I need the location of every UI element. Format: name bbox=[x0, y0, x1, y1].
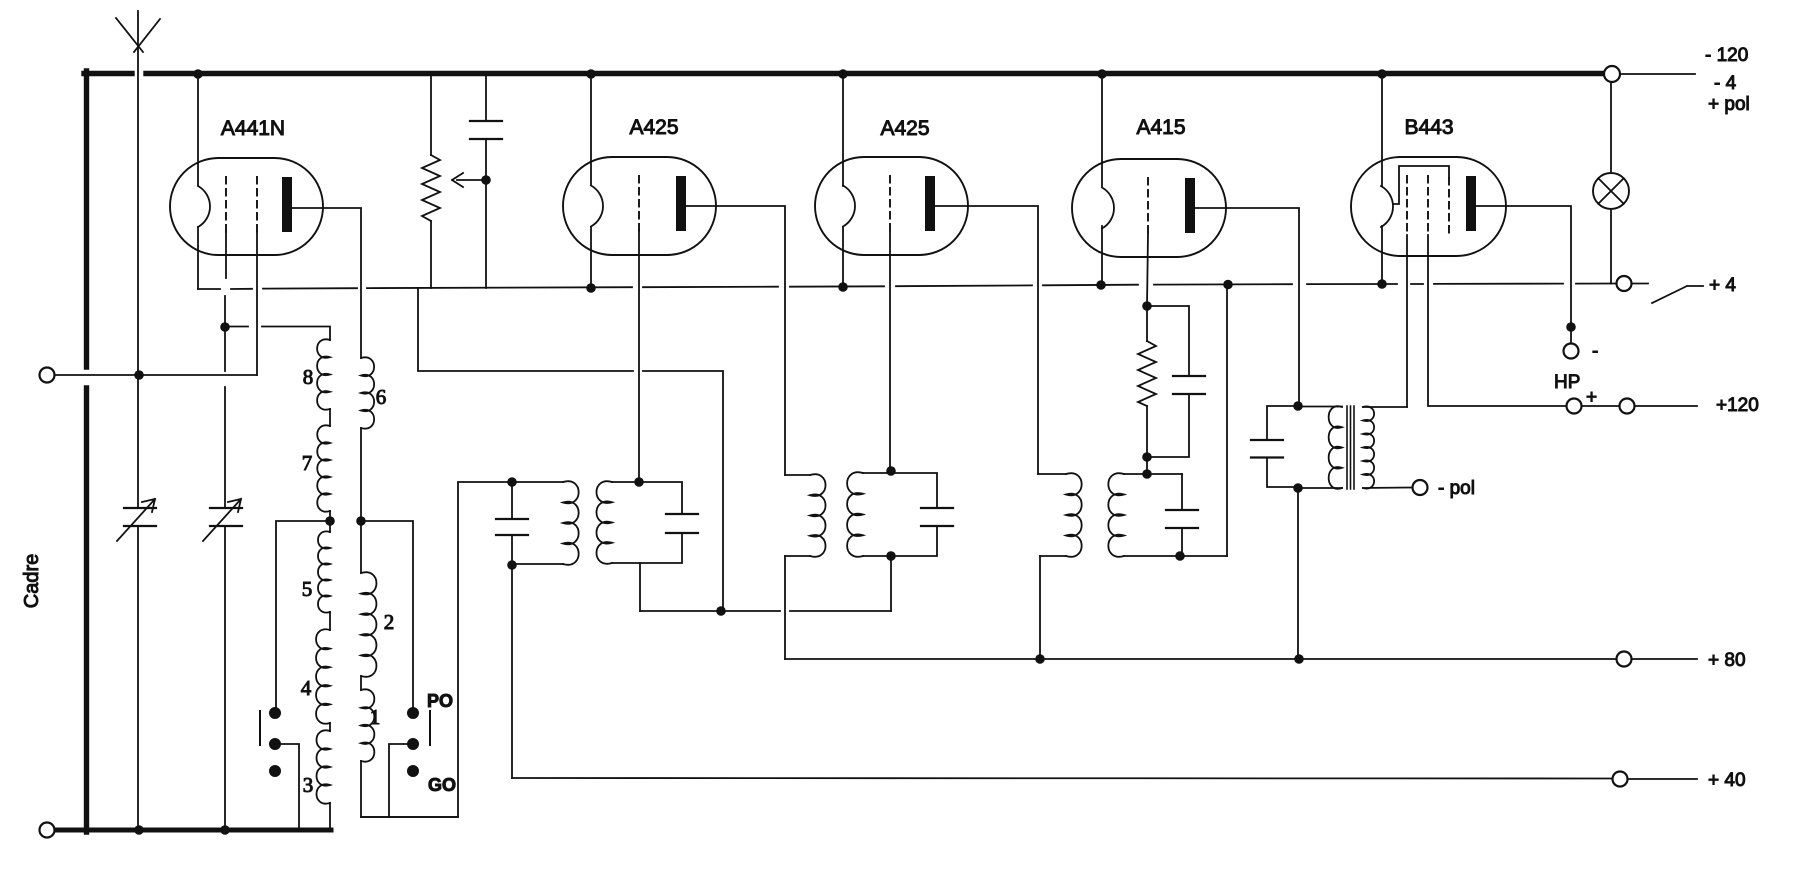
grid bbox=[638, 176, 640, 234]
wire coil8-coil7 bbox=[329, 409, 331, 426]
junction filament A441N / -120 bus bbox=[193, 69, 203, 79]
wire anode A425 V3 bbox=[935, 206, 1038, 474]
anode plate bar bbox=[925, 176, 935, 231]
tube A415 V4 (LF amp) bbox=[1072, 159, 1226, 257]
wire L4 bottom to grid bus bbox=[890, 556, 892, 611]
wire filament bottom B443 bbox=[1381, 226, 1383, 284]
svg-text:- 120: - 120 bbox=[1705, 45, 1748, 66]
anode plate bar bbox=[676, 176, 686, 231]
junction antenna / cadre input bbox=[134, 370, 144, 380]
filament bbox=[843, 186, 855, 227]
coil 6 (plate winding) bbox=[361, 357, 374, 428]
wire lamp bottom bbox=[1610, 209, 1612, 284]
coil 8 (antenna primary) bbox=[317, 339, 330, 409]
tube A441N V1 (bigrid detector) bbox=[170, 158, 323, 255]
terminal bottom-left bbox=[40, 823, 55, 838]
switch S1 left contacts bbox=[260, 707, 281, 777]
junction transformer primary bottom bbox=[1293, 483, 1303, 493]
capacitor C3 (grid tank V2) bbox=[612, 482, 698, 563]
svg-text:6: 6 bbox=[376, 385, 387, 409]
wire anode B443 to HP - bbox=[1474, 206, 1571, 343]
capacitor C7 (across primary) bbox=[1251, 406, 1298, 487]
svg-text:A415: A415 bbox=[1136, 116, 1185, 139]
terminal +80 bbox=[1617, 652, 1632, 667]
wire grid1 A441N to coil 8 tap bbox=[224, 296, 226, 371]
junction coil column 2 tap bbox=[356, 516, 366, 526]
tube B443 V5 (output pentode) bbox=[1351, 157, 1506, 256]
envelope bbox=[815, 157, 968, 255]
wire coil2-coil1 bbox=[360, 676, 362, 690]
wire secondary to grid B443 bbox=[1406, 235, 1408, 407]
junction +4 rail / stage3 secondary return bbox=[1223, 280, 1233, 290]
terminal cadre top input bbox=[40, 368, 55, 383]
wire grid2 drop A441N bbox=[256, 232, 258, 375]
svg-text:8: 8 bbox=[303, 365, 314, 389]
svg-text:PO: PO bbox=[427, 691, 453, 711]
wire switch S2 common bbox=[389, 744, 413, 817]
junction tank bottom bbox=[507, 560, 517, 570]
junction +80 / T1 primary bbox=[1294, 654, 1304, 664]
wire filament top B443 bbox=[1381, 76, 1383, 186]
filament bbox=[1381, 186, 1393, 227]
svg-text:A441N: A441N bbox=[221, 117, 285, 140]
wire grid A425 V2 bbox=[638, 230, 640, 482]
switch S2 right contacts bbox=[407, 707, 430, 777]
tube A425 V2 (HF amp 1) bbox=[563, 157, 716, 255]
anode plate bar bbox=[1466, 176, 1476, 231]
terminal +120 bbox=[1620, 399, 1635, 414]
suppressor grid tie B443 bbox=[1394, 166, 1449, 204]
svg-text:1: 1 bbox=[370, 705, 381, 729]
bus -120 top thick rail bbox=[84, 71, 132, 76]
antenna bbox=[116, 18, 160, 52]
junction grid leak top bbox=[1142, 301, 1152, 311]
wire leak to L6 bbox=[1146, 457, 1148, 474]
potentiometer R1 (filament rheostat) bbox=[422, 77, 440, 289]
junction antenna / bottom bus bbox=[134, 825, 144, 835]
svg-text:+ 4: + 4 bbox=[1709, 275, 1736, 296]
wire coil4-coil3 bbox=[329, 723, 331, 731]
wire grid1 through CV2 to bottom bus bbox=[224, 387, 226, 508]
wire filament bottom A425 V3 bbox=[842, 227, 844, 288]
net grid return bus bbox=[640, 610, 891, 612]
wire L5 bottom to +80 rail bbox=[1039, 556, 1041, 659]
wire coil3 to bottom bus bbox=[329, 803, 331, 831]
terminal -pol bbox=[1413, 480, 1428, 495]
junction grid V4 / L6 top bbox=[1142, 469, 1152, 479]
wire tap to switch PO/GO right bbox=[361, 521, 413, 713]
wire screen grid B443 to +120 bbox=[1428, 235, 1566, 406]
junction +80 / L5 bbox=[1035, 654, 1045, 664]
svg-text:+120: +120 bbox=[1716, 395, 1759, 416]
coil L3 (anode winding V2) bbox=[785, 474, 810, 476]
wire grid A425 V3 bbox=[889, 232, 891, 471]
resistor R2 (grid leak) bbox=[1138, 306, 1156, 457]
grid bbox=[256, 177, 258, 235]
wire primary bottom to +80 rail bbox=[1297, 488, 1299, 659]
terminal HP + bbox=[1567, 399, 1582, 414]
junction +4 rail / filament V4 bbox=[1096, 280, 1106, 290]
svg-text:+ 80: + 80 bbox=[1708, 650, 1746, 671]
switch S3 (filament switch) bbox=[1632, 284, 1703, 304]
grid bbox=[1406, 176, 1408, 234]
wire filament top A425 V2 bbox=[590, 76, 592, 185]
wire anode A441N bbox=[292, 208, 361, 358]
svg-text:GO: GO bbox=[428, 775, 456, 795]
net +40 rail bbox=[512, 777, 1613, 780]
junction C5 / bottom line bbox=[1175, 551, 1185, 561]
wire tank top to switch riser bbox=[361, 482, 512, 817]
svg-text:Cadre: Cadre bbox=[21, 554, 43, 608]
wire filament bottom A441N bbox=[197, 227, 199, 289]
wire cadre input to grid2 of A441N bbox=[55, 374, 258, 376]
envelope bbox=[563, 157, 716, 255]
coil 3 bbox=[317, 730, 331, 803]
svg-text:+: + bbox=[1586, 387, 1597, 408]
junction HP - lead bbox=[1566, 322, 1576, 332]
terminal -120 bbox=[1604, 66, 1620, 82]
svg-text:- 4: - 4 bbox=[1714, 73, 1737, 94]
terminal +40 bbox=[1613, 772, 1628, 787]
junction grid V2 / tuned circuit bbox=[634, 477, 644, 487]
junction filament B443 / -120 bus bbox=[1377, 69, 1387, 79]
svg-text:A425: A425 bbox=[629, 116, 678, 139]
terminal HP - bbox=[1564, 344, 1579, 359]
bus bottom thick rail bbox=[54, 828, 331, 833]
wire filament bottom A415 bbox=[1101, 226, 1103, 285]
svg-text:-: - bbox=[1592, 341, 1598, 362]
wiper arrow R1 bbox=[452, 173, 486, 187]
wire L6 bottom line bbox=[1124, 555, 1227, 557]
suppressor grid B443 bbox=[1448, 178, 1450, 235]
junction filament A425 V2 / -120 bus bbox=[586, 69, 596, 79]
junction grid leak bottom bbox=[1142, 452, 1152, 462]
junction CV2 / bottom bus bbox=[220, 825, 230, 835]
coil 2 bbox=[361, 572, 376, 677]
capacitor C4 (grid tank V3) bbox=[863, 473, 953, 556]
coil L4 (grid winding V3) bbox=[847, 472, 863, 557]
net +4 filament rail bbox=[198, 284, 1616, 290]
wire filament top A441N bbox=[197, 76, 199, 185]
junction wiper / C1 bbox=[481, 175, 491, 185]
coil 1 bbox=[361, 689, 374, 761]
junction tank top bbox=[507, 477, 517, 487]
junction +4 rail / filament V3 bbox=[838, 282, 848, 292]
capacitor C5 (grid tank V4) bbox=[1166, 474, 1198, 556]
junction grid1 / coil 8 bbox=[220, 322, 230, 332]
wire anode A425 V2 bbox=[686, 206, 785, 475]
coil 7 bbox=[317, 425, 330, 511]
junction grid return / +4 riser bbox=[716, 606, 726, 616]
grid bbox=[1427, 176, 1429, 234]
wire L6 top line bbox=[1124, 473, 1182, 475]
svg-text:A425: A425 bbox=[880, 117, 929, 140]
transformer core bbox=[1347, 406, 1354, 489]
envelope bbox=[1072, 159, 1226, 257]
coil T1 primary bbox=[1298, 406, 1342, 408]
anode plate bar bbox=[282, 177, 292, 232]
wire switch S1 common to bottom bus bbox=[275, 744, 299, 829]
svg-text:2: 2 bbox=[384, 610, 395, 634]
wire grid1 A441N upper bbox=[225, 232, 227, 278]
junction filament A415 / -120 bus bbox=[1097, 69, 1107, 79]
junction transformer primary top bbox=[1293, 401, 1303, 411]
net +80 rail bbox=[785, 658, 1616, 660]
terminal +4 bbox=[1617, 276, 1632, 291]
coil L6 (grid winding V4) bbox=[1108, 473, 1124, 557]
wire lamp top bbox=[1610, 82, 1612, 173]
junction grid V3 / tuned circuit bbox=[886, 466, 896, 476]
junction coil column 1 tap bbox=[325, 516, 335, 526]
wire filament top A415 bbox=[1101, 76, 1103, 186]
variable capacitor CV1 (antenna tuning) bbox=[117, 499, 156, 541]
svg-text:+ pol: + pol bbox=[1708, 94, 1750, 115]
wire coil8 top link bbox=[225, 327, 330, 341]
filament bbox=[198, 186, 210, 227]
grid bbox=[225, 177, 227, 235]
variable capacitor CV2 (grid tuning) bbox=[203, 499, 242, 541]
junction L4 bottom bbox=[886, 551, 896, 561]
wire tap to switch PO left bbox=[276, 521, 330, 713]
wire L6 return to +4 rail bbox=[1226, 285, 1228, 556]
svg-text:3: 3 bbox=[303, 773, 314, 797]
wire coil5-coil4 bbox=[329, 612, 331, 630]
coil 4 bbox=[316, 629, 330, 723]
dial lamp bbox=[1593, 173, 1629, 209]
svg-text:5: 5 bbox=[302, 577, 313, 601]
wire +4 riser to grid bus bbox=[418, 288, 723, 611]
wire grid A415 bbox=[1147, 234, 1148, 306]
wire antenna lead bbox=[137, 11, 139, 508]
wire coil6-coil2 bbox=[360, 428, 362, 573]
capacitor C6 (grid condenser) bbox=[1147, 306, 1205, 457]
svg-text:7: 7 bbox=[302, 451, 313, 475]
wire coil7-coil5 bbox=[329, 511, 331, 532]
wire L3 bottom to +80 rail bbox=[784, 556, 786, 659]
capacitor C1 (across supply) bbox=[470, 77, 502, 289]
bus left thick vertical (cadre frame) bbox=[84, 71, 89, 367]
wire grid return stub bbox=[639, 563, 641, 611]
tube A425 V3 (HF amp 2) bbox=[815, 157, 968, 255]
wire coil1 bottom bbox=[361, 761, 458, 817]
svg-text:B443: B443 bbox=[1404, 116, 1453, 139]
envelope bbox=[170, 158, 323, 255]
junction +4 rail / filament V2 bbox=[586, 283, 596, 293]
wire filament top A425 V3 bbox=[842, 76, 844, 186]
junction filament A425 V3 / -120 bus bbox=[838, 69, 848, 79]
wire anode A415 bbox=[1194, 208, 1299, 406]
svg-text:HP: HP bbox=[1554, 372, 1580, 393]
anode plate bar bbox=[1185, 178, 1195, 233]
svg-text:- pol: - pol bbox=[1438, 478, 1475, 499]
coil L5 (anode winding V3) bbox=[1038, 473, 1066, 475]
filament bbox=[1102, 188, 1114, 229]
wire tank bottom to +40 rail bbox=[511, 565, 513, 778]
filament bbox=[591, 186, 603, 227]
coil T1 secondary bbox=[1363, 406, 1407, 408]
svg-text:+ 40: + 40 bbox=[1708, 770, 1746, 791]
envelope bbox=[1351, 157, 1506, 256]
wire filament bottom A425 V2 bbox=[590, 227, 592, 288]
svg-text:4: 4 bbox=[301, 676, 312, 700]
capacitor C2 (tank) bbox=[496, 482, 528, 565]
coil 5 bbox=[318, 531, 330, 612]
junction +4 rail / filament V5 bbox=[1377, 279, 1387, 289]
grid bbox=[1147, 178, 1149, 236]
coil L2 (grid winding V2) bbox=[596, 481, 612, 564]
coil L1 (tank) bbox=[512, 481, 563, 483]
grid bbox=[889, 176, 891, 234]
